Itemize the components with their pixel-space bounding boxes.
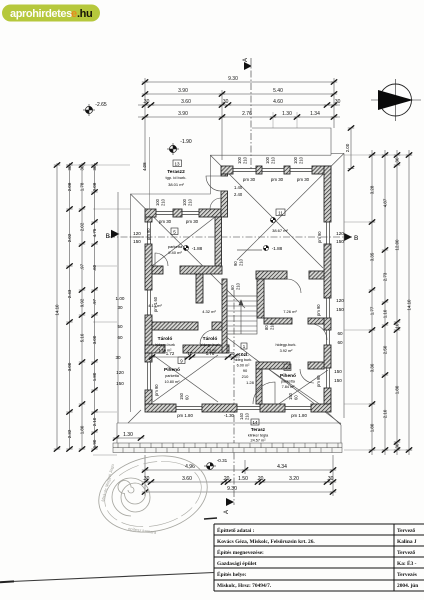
pm 1.80 labels bottom: [177, 413, 307, 418]
svg-text:120: 120: [336, 298, 344, 303]
section marker A top: [243, 58, 252, 170]
svg-text:1.78: 1.78: [206, 351, 215, 356]
svg-text:1.72: 1.72: [166, 351, 175, 356]
svg-text:7.26 m²: 7.26 m²: [283, 309, 297, 314]
section line A inside plan: [233, 290, 235, 505]
1.40 2.40 label: [234, 185, 243, 197]
svg-text:38.01 m²: 38.01 m²: [168, 182, 184, 187]
svg-text:.97: .97: [80, 263, 85, 270]
klinker brick strip: [113, 443, 342, 453]
svg-text:-1.88: -1.88: [192, 246, 203, 251]
svg-text:hideg burk.: hideg burk.: [234, 358, 253, 362]
terrace outline: [117, 422, 341, 424]
pm30 labels top windows: [159, 177, 310, 224]
svg-text:-1.90: -1.90: [180, 139, 192, 145]
svg-text:150: 150: [336, 239, 344, 244]
svg-text:-1.30: -1.30: [224, 413, 235, 418]
svg-text:1.80: 1.80: [80, 425, 85, 434]
svg-text:pm 30: pm 30: [186, 219, 199, 224]
frame line bottom left: [0, 573, 214, 583]
svg-text:Tároló: Tároló: [158, 336, 173, 342]
svg-text:1.80: 1.80: [395, 385, 400, 394]
window room11 top 1: [233, 169, 256, 172]
svg-text:7.84 m²: 7.84 m²: [282, 385, 296, 389]
svg-text:.30: .30: [143, 476, 150, 482]
svg-text:1.30: 1.30: [123, 432, 133, 438]
wall between Terasz2 and room11: [221, 174, 228, 176]
Pihenő left: [164, 357, 185, 384]
west wall window 2: [148, 290, 151, 315]
svg-text:Ka: É3 -: Ka: É3 -: [397, 559, 417, 567]
window left-top 1: [156, 212, 173, 215]
west wall: [145, 217, 152, 222]
svg-text:210: 210: [188, 198, 193, 206]
interior band y=271-279 right: [256, 271, 287, 279]
svg-text:2.76: 2.76: [242, 111, 252, 117]
svg-text:3.90: 3.90: [178, 111, 188, 117]
leader line -1.88 room11: [237, 249, 262, 251]
svg-text:parketta: parketta: [281, 380, 296, 384]
south wall window 2: [285, 407, 311, 410]
svg-text:6.00 m²: 6.00 m²: [237, 364, 251, 368]
svg-text:pm 90: pm 90: [154, 384, 159, 396]
svg-text:4.32 m²: 4.32 m²: [202, 309, 216, 314]
svg-text:Tervező: Tervező: [397, 528, 415, 534]
svg-text:parketta: parketta: [165, 374, 180, 378]
svg-text:.97: .97: [92, 298, 97, 305]
svg-text:50: 50: [117, 324, 123, 329]
svg-text:B: B: [106, 233, 110, 240]
svg-text:2.02: 2.02: [80, 222, 85, 231]
svg-text:9.92: 9.92: [80, 298, 85, 307]
svg-text:2.02: 2.02: [67, 233, 72, 242]
pm 90 rotated labels west wall: [146, 228, 322, 396]
svg-text:210: 210: [236, 282, 241, 290]
room 13 Terasz2: [166, 160, 187, 187]
svg-text:11: 11: [278, 210, 283, 215]
svg-text:2.50: 2.50: [383, 345, 388, 354]
svg-text:30: 30: [395, 443, 400, 448]
svg-text:2.40: 2.40: [234, 192, 243, 197]
svg-text:1.40: 1.40: [234, 185, 243, 190]
svg-text:Miskolc, Hrsz: 70494/7.: Miskolc, Hrsz: 70494/7.: [217, 583, 272, 589]
svg-text:14.10: 14.10: [407, 299, 412, 311]
svg-text:3.92 m²: 3.92 m²: [280, 349, 294, 353]
bottom-left room diagonals: [153, 355, 218, 402]
eaves left upper corner: [131, 155, 332, 412]
interior wall x=222 stairs left: [222, 279, 227, 353]
svg-text:2004. jún: 2004. jún: [397, 583, 418, 589]
svg-text:pm 1.60: pm 1.60: [153, 296, 158, 312]
svg-text:30: 30: [80, 165, 85, 170]
svg-text:-1.88: -1.88: [272, 246, 283, 251]
svg-text:pm 90: pm 90: [146, 228, 151, 240]
svg-text:3.00: 3.00: [67, 362, 72, 371]
svg-text:Tervező: Tervező: [397, 550, 415, 556]
svg-text:90: 90: [243, 368, 248, 373]
svg-text:1.34: 1.34: [310, 111, 320, 117]
svg-text:1.30: 1.30: [282, 111, 292, 117]
window room11 top 3: [290, 169, 312, 172]
svg-text:12.00: 12.00: [395, 239, 400, 251]
window left-top 2: [182, 212, 199, 215]
left section top wall: [145, 209, 156, 217]
svg-text:pm 30: pm 30: [159, 219, 172, 224]
level marker -0.31: [204, 458, 228, 469]
svg-text:30: 30: [67, 165, 72, 170]
east wall window 2: [327, 298, 330, 318]
dim line 3.90 / 5.40: [145, 93, 334, 95]
room 5: [168, 228, 183, 255]
svg-text:210: 210: [242, 374, 249, 379]
svg-text:30: 30: [117, 305, 123, 310]
svg-text:4.75: 4.75: [92, 228, 97, 237]
svg-text:3.00: 3.00: [92, 335, 97, 344]
svg-text:210: 210: [299, 156, 304, 164]
svg-text:24.57 m²: 24.57 m²: [251, 439, 267, 443]
svg-text:210: 210: [245, 412, 250, 420]
hip from top-left eaves corner: [131, 194, 246, 308]
Tarolo right: [200, 309, 220, 353]
room 3.92: [276, 343, 297, 353]
svg-text:30: 30: [115, 355, 121, 360]
svg-text:.30: .30: [143, 99, 150, 105]
svg-text:2.10: 2.10: [383, 409, 388, 418]
svg-text:.30: .30: [327, 476, 334, 482]
door Terasz2 to room11: [206, 176, 221, 191]
svg-text:60: 60: [185, 395, 190, 400]
svg-text:150: 150: [334, 369, 342, 374]
svg-text:100: 100: [237, 156, 242, 164]
svg-text:3.28: 3.28: [370, 185, 375, 194]
svg-text:30: 30: [230, 351, 235, 356]
section marker A bottom: [224, 498, 234, 514]
svg-text:pm 1.80: pm 1.80: [291, 413, 307, 418]
svg-text:.20: .20: [257, 476, 264, 482]
svg-text:1.80: 1.80: [92, 372, 97, 381]
svg-text:pm 1.80: pm 1.80: [177, 413, 193, 418]
Tarolo left: [148, 303, 175, 353]
svg-text:1.77: 1.77: [370, 306, 375, 315]
svg-text:Terasz: Terasz: [251, 427, 266, 432]
svg-text:210: 210: [271, 156, 276, 164]
svg-text:3.60: 3.60: [181, 99, 191, 105]
interior wall x=196 between small rooms: [196, 274, 203, 303]
svg-text:pm 90: pm 90: [317, 231, 322, 243]
svg-text:9.30: 9.30: [227, 486, 237, 492]
svg-text:60: 60: [337, 340, 343, 345]
svg-text:hidegp.burk: hidegp.burk: [200, 343, 220, 347]
svg-text:hidegp.burk.: hidegp.burk.: [276, 343, 297, 347]
svg-text:3.90: 3.90: [178, 88, 188, 94]
svg-text:5.40: 5.40: [273, 88, 283, 94]
svg-text:2.10: 2.10: [92, 417, 97, 426]
eaves top-right small rect: [252, 128, 331, 155]
svg-text:Pihenő: Pihenő: [280, 373, 296, 379]
svg-text:Gazdasági épület: Gazdasági épület: [217, 561, 257, 567]
level marker -2.65: [83, 102, 107, 116]
dim line 3.90 2.76 1.30 1.34: [138, 116, 340, 118]
svg-text:tgp. id burk.: tgp. id burk.: [166, 175, 187, 180]
svg-text:2.08: 2.08: [67, 182, 72, 191]
room5 opposite diagonal: [152, 217, 215, 266]
svg-text:120: 120: [336, 231, 344, 236]
dim line .30 3.60 .30 4.60 .30: [138, 104, 340, 106]
svg-text:60: 60: [230, 285, 235, 290]
svg-text:1.78: 1.78: [80, 182, 85, 191]
eaves right edge: [343, 153, 345, 418]
svg-text:210: 210: [239, 258, 244, 266]
roof hip diagonals: [128, 153, 344, 425]
interior band y=362-369 right section: [256, 362, 290, 369]
svg-text:hidegp.burk: hidegp.burk: [155, 343, 175, 347]
svg-text:2.32: 2.32: [67, 429, 72, 438]
svg-text:A: A: [224, 510, 230, 514]
svg-text:100: 100: [265, 156, 270, 164]
svg-text:Kalina J: Kalina J: [397, 539, 417, 545]
interior wall x=256 kozl right: [256, 369, 262, 404]
svg-text:120: 120: [116, 370, 124, 375]
140/210 rotated near south door: [239, 412, 250, 420]
level -1.88 room5: [183, 245, 202, 251]
svg-text:150: 150: [288, 392, 293, 400]
room 11: [270, 209, 288, 233]
svg-text:150: 150: [116, 381, 124, 386]
svg-text:1.50: 1.50: [238, 476, 248, 482]
svg-text:10: 10: [395, 323, 400, 328]
extension connectors left: [66, 165, 130, 455]
svg-text:100: 100: [155, 198, 160, 206]
window size labels 100/210 rotated: [155, 156, 304, 206]
svg-text:Tároló: Tároló: [203, 336, 218, 342]
svg-text:13: 13: [174, 161, 180, 166]
east wall window 4: [327, 368, 330, 388]
svg-text:38.67 m²: 38.67 m²: [272, 228, 288, 233]
svg-text:120: 120: [133, 231, 141, 236]
svg-text:4.96: 4.96: [185, 464, 195, 470]
svg-text:9.40 m²: 9.40 m²: [168, 250, 182, 255]
interior band y=344-354: [145, 345, 165, 353]
svg-text:3.60: 3.60: [182, 476, 192, 482]
west wall window 1: [148, 222, 151, 244]
svg-text:100: 100: [293, 156, 298, 164]
east wall window 1: [327, 222, 330, 244]
svg-text:1.80: 1.80: [370, 423, 375, 432]
door room 3.92: [311, 324, 327, 340]
svg-text:Tervezés: Tervezés: [397, 572, 417, 578]
svg-text:.60: .60: [92, 264, 97, 271]
svg-text:9.30: 9.30: [228, 76, 238, 82]
door 7.26 room: [287, 279, 301, 293]
svg-text:.20: .20: [223, 476, 230, 482]
svg-text:Építtető adatai :: Építtető adatai :: [217, 526, 255, 534]
svg-text:150: 150: [179, 392, 184, 400]
door Tarolo left: [200, 330, 214, 344]
door room5 to small room: [155, 253, 168, 266]
svg-text:2.00: 2.00: [345, 143, 350, 152]
interior band y=321-331 above Tarolo: [152, 322, 198, 330]
svg-text:210: 210: [270, 322, 275, 330]
svg-text:-0.31: -0.31: [217, 458, 228, 463]
svg-text:4.08: 4.08: [142, 162, 147, 171]
svg-text:140: 140: [239, 412, 244, 420]
svg-text:-2.65: -2.65: [95, 102, 107, 108]
svg-text:Terasz2: Terasz2: [167, 169, 185, 175]
svg-text:1.90: 1.90: [92, 439, 97, 448]
svg-text:2.73: 2.73: [383, 272, 388, 281]
svg-text:100: 100: [182, 198, 187, 206]
hip room11 left: [210, 155, 323, 268]
level -1.88 room11: [263, 245, 282, 251]
svg-text:5.16: 5.16: [80, 333, 85, 342]
svg-text:Pihenő: Pihenő: [164, 367, 180, 373]
svg-text:30: 30: [395, 157, 400, 162]
svg-text:210: 210: [243, 156, 248, 164]
svg-text:14.10: 14.10: [55, 304, 60, 316]
svg-text:150: 150: [336, 307, 344, 312]
bottom-left terrace corner hip: [128, 410, 141, 423]
dim 2.00 top right: [345, 125, 354, 171]
window room11 top 2: [262, 169, 284, 172]
sill labels east side: [334, 231, 344, 383]
bottom-right room diagonals: [270, 370, 328, 410]
svg-text:60: 60: [337, 331, 343, 336]
door pihenő right: [300, 369, 314, 383]
svg-text:3.20: 3.20: [289, 476, 299, 482]
svg-text:pm 90: pm 90: [316, 375, 321, 387]
hip room11 right: [237, 153, 344, 260]
long diagonal lower right: [225, 336, 341, 424]
top wall of right section with window piers: [221, 166, 233, 174]
svg-text:parketta: parketta: [168, 244, 183, 249]
interior wall right of stairs: [257, 279, 264, 318]
extension connectors right: [344, 155, 412, 450]
door kozl bottom: [253, 382, 275, 404]
svg-text:pm 30: pm 30: [243, 177, 256, 182]
east wall window 3: [327, 330, 330, 345]
svg-text:klinker tégla: klinker tégla: [248, 434, 269, 438]
svg-text:2.43: 2.43: [67, 289, 72, 298]
svg-text:2.08: 2.08: [92, 182, 97, 191]
svg-text:1.00: 1.00: [116, 296, 125, 301]
svg-text:4.87: 4.87: [383, 198, 388, 207]
svg-text:60: 60: [294, 395, 299, 400]
svg-text:Építés megnevezése:: Építés megnevezése:: [217, 548, 264, 556]
south wall: [145, 404, 176, 412]
svg-text:1.28: 1.28: [246, 380, 255, 385]
Pihenő right: [280, 364, 296, 389]
svg-text:30: 30: [92, 165, 97, 170]
svg-text:aprohirdetes: aprohirdetes: [10, 8, 72, 20]
svg-text:210: 210: [161, 198, 166, 206]
interior band y=266-274 left: [152, 266, 163, 274]
bottom-right terrace corner hip: [327, 412, 341, 425]
Közl: [234, 343, 255, 385]
Terasz bottom: [248, 419, 269, 443]
svg-text:60: 60: [117, 335, 123, 340]
svg-text:Építés helye:: Építés helye:: [217, 570, 247, 578]
svg-text:.30: .30: [334, 99, 341, 105]
svg-text:pm 90: pm 90: [316, 304, 321, 316]
extension verticals top dims: [273, 112, 297, 128]
svg-text:14: 14: [253, 420, 258, 425]
window size labels bottom 150/60: [179, 392, 299, 400]
level marker -1.90: [167, 139, 192, 155]
west wall window 3: [148, 362, 151, 390]
east wall: [324, 166, 331, 222]
svg-text:1.10: 1.10: [383, 309, 388, 318]
svg-text:pm 30: pm 30: [271, 177, 284, 182]
extension lines: [144, 78, 146, 170]
svg-text:4.34: 4.34: [277, 464, 287, 470]
svg-text:.30: .30: [222, 99, 229, 105]
interior band y=318-324 (under 7.26 room): [264, 318, 292, 324]
svg-text:3.36: 3.36: [370, 363, 375, 372]
svg-text:150: 150: [334, 378, 342, 383]
sill labels west side 120/150: [115, 231, 144, 386]
south wall window 1: [176, 407, 202, 410]
terasz2 dim extension line: [149, 137, 151, 209]
svg-text:80: 80: [264, 325, 269, 330]
dim line 9.30: [145, 81, 334, 83]
svg-text:4.60: 4.60: [273, 99, 283, 105]
svg-text:10.80 m²: 10.80 m²: [165, 380, 181, 384]
svg-text:Kovács Géza, Miskolc, Felsőruz: Kovács Géza, Miskolc, Felsőruzsin krt. 2…: [217, 539, 315, 545]
svg-text:A: A: [243, 58, 249, 62]
section marker B right: [344, 233, 352, 241]
svg-text:3.35: 3.35: [370, 252, 375, 261]
svg-text:B: B: [354, 235, 358, 242]
svg-text:5: 5: [173, 229, 176, 234]
south door: [237, 407, 260, 410]
stair door labels: [230, 258, 275, 330]
svg-text:pm 30: pm 30: [297, 177, 310, 182]
svg-text:150: 150: [133, 239, 141, 244]
interior wall room5/room11 (x=215): [215, 217, 222, 266]
svg-text:90: 90: [233, 261, 238, 266]
scan dash above table corner: [204, 518, 217, 519]
svg-text:10: 10: [188, 351, 193, 356]
svg-text:.hu: .hu: [77, 8, 92, 20]
